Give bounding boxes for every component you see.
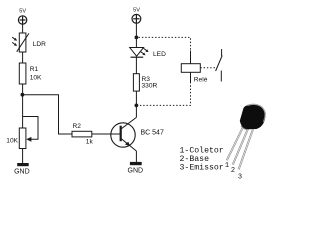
svg-text:10K: 10K: [30, 75, 42, 82]
svg-text:GND: GND: [128, 168, 144, 175]
wire R2 to base: [92, 133, 120, 135]
svg-text:LED: LED: [153, 51, 166, 58]
svg-text:GND: GND: [14, 169, 30, 176]
dashed net relay to node C: [139, 82, 191, 105]
LED D1: [130, 48, 166, 59]
svg-text:R1: R1: [30, 66, 39, 73]
TO-92 package body: [240, 104, 266, 129]
transistor Q1 BC 547: [111, 117, 164, 151]
wire LED to R3: [135, 57, 137, 73]
svg-text:LDR: LDR: [33, 41, 46, 48]
dashed net node B to relay: [139, 37, 191, 50]
svg-text:1k: 1k: [86, 138, 94, 145]
dashed actuator link: [200, 67, 215, 69]
wire pot to ground: [22, 149, 24, 164]
wire R1 to potentiometer: [22, 84, 24, 128]
ground GND (left): [14, 163, 30, 176]
ground GND (middle): [128, 162, 144, 175]
potentiometer P1 10K: [6, 117, 38, 149]
5V supply V2 (middle): [132, 8, 141, 24]
resistor R1 10K: [19, 63, 42, 84]
resistor R3 330R: [133, 74, 157, 91]
node B junction dot: [135, 36, 139, 40]
photoresistor LDR: [12, 33, 46, 52]
wire 5V to LDR: [22, 24, 24, 33]
svg-text:3: 3: [238, 173, 242, 181]
svg-text:5V: 5V: [133, 8, 140, 14]
svg-text:1: 1: [225, 162, 229, 170]
TO-92 package legs: [227, 127, 253, 170]
resistor R2 1k: [72, 123, 93, 145]
svg-text:5V: 5V: [19, 8, 26, 14]
svg-text:330R: 330R: [142, 83, 158, 90]
node A junction dot: [21, 93, 25, 97]
svg-text:3-Emissor: 3-Emissor: [180, 163, 224, 173]
node C junction dot: [135, 104, 139, 108]
switch S1 contact: [216, 49, 223, 82]
wire LDR to R1: [22, 52, 24, 63]
wire relay top stub: [190, 51, 192, 64]
svg-text:BC 547: BC 547: [141, 130, 164, 137]
wire relay bottom stub: [190, 72, 192, 82]
pinout legend: [180, 146, 224, 173]
svg-text:10K: 10K: [6, 137, 18, 144]
svg-text:2: 2: [231, 167, 235, 175]
wire 5V to LED: [135, 23, 137, 47]
wire node A to R2: [22, 95, 72, 134]
wire emitter to ground: [135, 151, 137, 162]
svg-text:Relé: Relé: [194, 77, 208, 84]
5V supply V1 (left): [18, 8, 26, 24]
svg-text:R2: R2: [73, 123, 82, 130]
wire R3 to collector: [135, 91, 137, 117]
relay K1 coil: [181, 64, 207, 84]
